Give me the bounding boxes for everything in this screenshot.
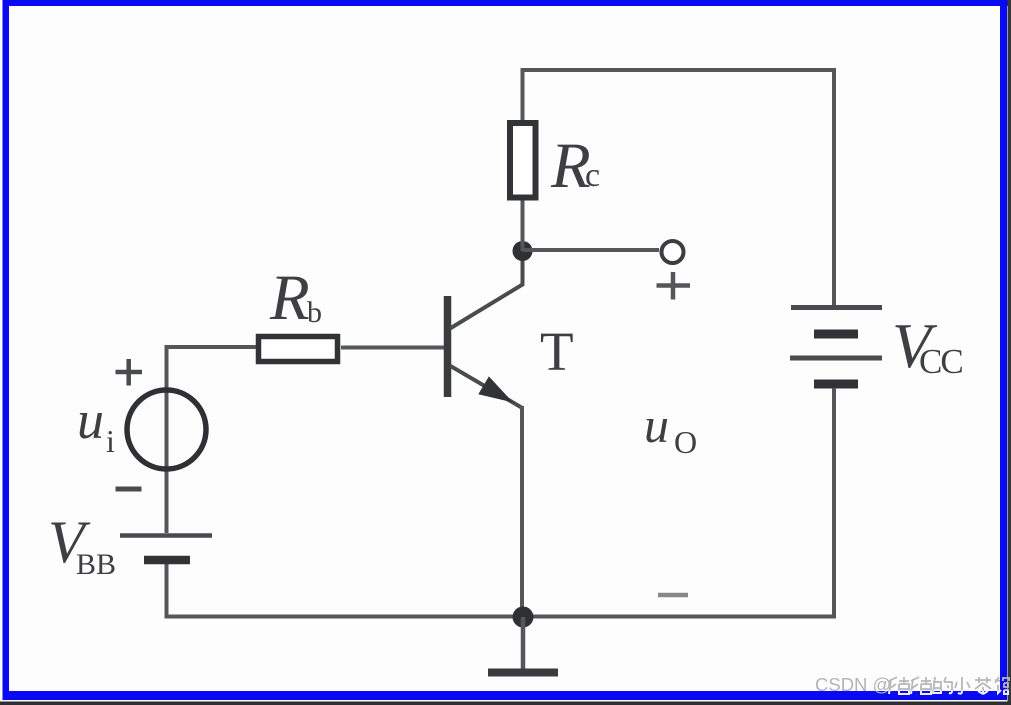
minus sign (output): [658, 593, 688, 598]
battery VCC plate 1 (long): [791, 305, 882, 310]
wire: emitter vertical: [520, 406, 524, 617]
dark bottom edge strip: [0, 702, 1011, 705]
blue frame top: [3, 0, 1008, 6]
svg-text:CSDN @: CSDN @: [815, 674, 891, 695]
wire: bottom rail: [165, 615, 837, 619]
ground stub: [521, 617, 526, 669]
blue frame left: [3, 0, 10, 700]
svg-text:b: b: [307, 296, 322, 329]
label u_i: [77, 390, 115, 459]
minus sign (input): [116, 487, 142, 492]
wire: top-left horizontal (left rail to Rb): [165, 345, 259, 349]
watermark hanzi 4 (xiao): [955, 677, 970, 694]
battery VCC plate 2 (short thick): [814, 330, 858, 339]
label VCC: [892, 310, 962, 381]
wire: right rail upper (to Vcc battery): [832, 68, 836, 305]
svg-text:T: T: [540, 321, 574, 382]
transistor T emitter lead: [451, 366, 522, 408]
transistor T collector lead: [450, 251, 523, 329]
svg-text:BB: BB: [76, 548, 116, 581]
node dot (collector node): [513, 241, 533, 261]
svg-text:R: R: [269, 262, 310, 334]
wire: base wire (Rb to transistor base): [341, 346, 445, 350]
dark right edge strip: [1008, 0, 1011, 705]
watermark CSDN @: [815, 674, 891, 695]
wire: Rc bottom lead: [521, 199, 525, 251]
blue frame bottom: [3, 691, 1008, 700]
watermark hanzi 1 (mao): [889, 677, 909, 694]
ground bar: [488, 669, 558, 677]
svg-text:c: c: [585, 157, 600, 194]
label Rb: [269, 262, 322, 334]
wire: top rail: [521, 68, 837, 72]
resistor Rc: [510, 123, 536, 198]
battery VCC plate 4 (short thick): [814, 380, 858, 389]
svg-text:u: u: [644, 397, 669, 453]
resistor Rb: [259, 337, 338, 362]
watermark hanzi 6 (guan): [995, 677, 1009, 694]
wire: left rail upper (corner to source): [165, 345, 169, 533]
watermark hanzi 3 (de): [933, 677, 952, 694]
plus sign (output): [657, 272, 691, 300]
label u_O: [644, 397, 697, 460]
wire: right rail lower (battery to bottom rail): [832, 388, 836, 619]
svg-text:i: i: [106, 423, 115, 459]
wire: Rc top lead: [521, 68, 525, 121]
svg-text:CC: CC: [919, 342, 962, 381]
watermark hanzi white overlay on blue bar: [889, 677, 1008, 694]
wire: output wire (node to terminal): [523, 248, 660, 252]
battery VBB plate 1 (long): [120, 533, 212, 538]
label VBB: [48, 509, 116, 581]
svg-text:u: u: [77, 390, 104, 450]
battery VBB plate 2 (short thick): [144, 556, 190, 565]
transistor T emitter arrow: [478, 376, 513, 402]
transistor T base bar: [444, 296, 452, 397]
label Rc: [550, 130, 600, 202]
junction dot (emitter / ground node): [513, 607, 534, 628]
label T: [540, 321, 574, 382]
watermark hanzi 5 (cha): [975, 677, 991, 694]
source u_i circle: [127, 390, 206, 469]
watermark hanzi 2 (mao): [911, 677, 931, 694]
blue frame right: [1000, 0, 1007, 700]
battery VCC plate 3 (long): [790, 356, 882, 361]
svg-text:O: O: [674, 424, 697, 460]
wire: left rail lower (VBB to bottom rail): [165, 564, 169, 617]
output terminal circle: [662, 241, 684, 263]
plus sign (input): [116, 359, 143, 386]
